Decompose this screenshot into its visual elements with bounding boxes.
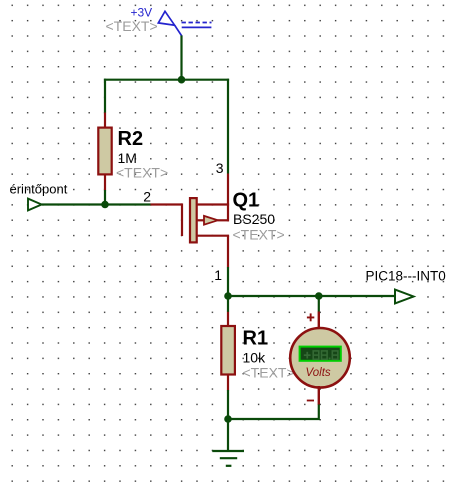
power symbol leader line: [175, 25, 182, 36]
node gate junction: [101, 201, 109, 209]
transistor Q1 arrow tip link: [218, 219, 230, 221]
transistor Q1 source stub: [198, 235, 230, 237]
voltmeter digits +88.8: [304, 352, 311, 359]
svg-text:<TEXT>: <TEXT>: [116, 165, 168, 181]
transistor Q1 body stub: [198, 219, 205, 221]
svg-text:10k: 10k: [243, 350, 267, 366]
wire power stub: [180, 36, 182, 80]
svg-text:1: 1: [214, 267, 222, 283]
resistor R2 bottom pin: [104, 174, 106, 191]
resistor R1 top pin: [227, 312, 229, 327]
resistor R2 body: [98, 128, 111, 175]
wire gate (green): [42, 203, 151, 205]
wire left branch lower: [104, 190, 106, 206]
svg-text:R2: R2: [118, 128, 144, 150]
transistor Q1 drain stub: [198, 203, 230, 205]
wire drain upper (green): [227, 79, 229, 174]
transistor Q1 source pin vertical: [227, 236, 229, 268]
svg-text:BS250: BS250: [233, 211, 275, 227]
voltmeter bottom pin: [318, 386, 320, 405]
node source junction: [224, 292, 232, 300]
voltmeter body circle: [290, 328, 350, 388]
power symbol solid rail: [182, 26, 212, 28]
voltmeter minus sign: [307, 400, 314, 402]
svg-text:<TEXT>: <TEXT>: [243, 365, 295, 381]
svg-text:Q1: Q1: [233, 189, 260, 211]
voltmeter top green: [318, 295, 320, 312]
terminal érintőpont arrow: [28, 199, 42, 211]
transistor Q1 drain pin vertical: [227, 174, 229, 222]
resistor R1 body: [221, 326, 235, 375]
voltmeter top pin: [318, 312, 320, 331]
svg-text:Volts: Volts: [306, 367, 331, 379]
wire output node horizontal: [228, 295, 395, 297]
svg-text:R1: R1: [243, 328, 269, 350]
node meter junction: [315, 292, 323, 300]
terminal PIC18---INT0 arrow: [395, 290, 414, 304]
svg-text:2: 2: [143, 189, 151, 205]
transistor Q1 body arrow: [204, 216, 218, 225]
voltmeter display: [300, 347, 341, 361]
wire source to node (green): [227, 267, 229, 296]
wire top rail: [104, 79, 229, 81]
resistor R1 top green: [227, 296, 229, 312]
svg-text:PIC18---INT0: PIC18---INT0: [366, 268, 446, 283]
transistor Q1 gate pin: [151, 203, 183, 205]
power symbol dashed rail: [182, 22, 212, 24]
voltmeter bottom green: [227, 405, 319, 420]
power symbol +3V triangle: [158, 11, 174, 25]
transistor Q1 channel body: [190, 198, 197, 242]
ground symbol: [212, 451, 244, 466]
svg-text:<TEXT>: <TEXT>: [233, 227, 285, 243]
wire ground stub: [227, 418, 229, 452]
voltmeter plus sign: [307, 313, 314, 321]
svg-text:<TEXT>: <TEXT>: [106, 18, 158, 34]
resistor R1 bottom green: [227, 390, 229, 420]
node ground junction: [224, 415, 232, 423]
transistor Q1 gate bar: [181, 203, 183, 236]
resistor R2 top pin: [104, 113, 106, 129]
svg-text:3: 3: [216, 160, 224, 176]
resistor R1 bottom pin: [227, 374, 229, 391]
wire left branch upper: [104, 79, 106, 113]
svg-text:érintőpont: érintőpont: [10, 182, 68, 197]
node top rail junction: [178, 76, 186, 84]
